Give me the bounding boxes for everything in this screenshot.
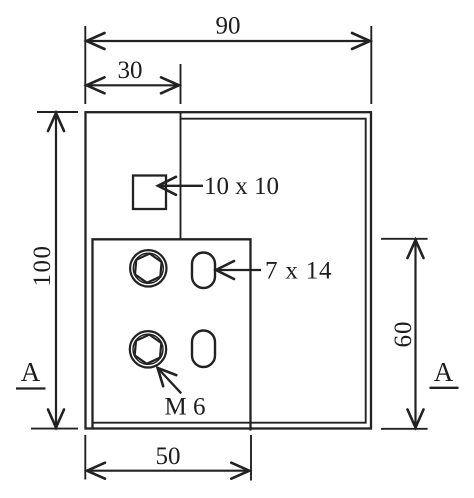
svg-text:30: 30 bbox=[118, 57, 143, 84]
svg-text:A: A bbox=[21, 357, 41, 387]
svg-text:M 6: M 6 bbox=[165, 394, 206, 421]
svg-text:60: 60 bbox=[390, 321, 417, 348]
svg-text:7 x 14: 7 x 14 bbox=[265, 258, 332, 285]
svg-text:90: 90 bbox=[216, 13, 241, 40]
svg-text:A: A bbox=[434, 357, 454, 387]
svg-text:50: 50 bbox=[156, 443, 181, 470]
svg-text:100: 100 bbox=[29, 245, 56, 287]
svg-text:10 x 10: 10 x 10 bbox=[204, 173, 279, 200]
